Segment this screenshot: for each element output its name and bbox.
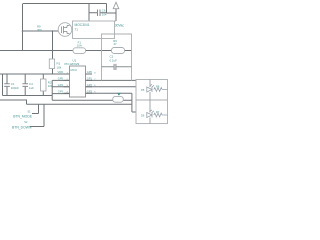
LED cell 2 vertical bbox=[149, 100, 151, 124]
svg-text:10k: 10k bbox=[48, 84, 53, 88]
wire x89 drop bbox=[88, 4, 90, 22]
wire pin3 stub left bbox=[52, 86, 69, 88]
wire rail A buzzer bbox=[52, 99, 132, 101]
wire button1 bbox=[32, 104, 39, 113]
wire cap C2 branch bbox=[24, 74, 26, 96]
svg-text:0.1uF: 0.1uF bbox=[110, 59, 118, 63]
svg-text:GP5: GP5 bbox=[58, 77, 64, 81]
opto triac Q1 circle bbox=[58, 23, 72, 37]
wire main AC line bbox=[0, 50, 132, 52]
svg-text:MCU: MCU bbox=[71, 68, 77, 72]
buzzer flag bbox=[117, 93, 121, 96]
capacitor C1 bbox=[4, 84, 10, 87]
svg-text:T1: T1 bbox=[75, 28, 79, 32]
wire bottom left step bbox=[0, 100, 27, 104]
svg-text:10A: 10A bbox=[77, 43, 82, 47]
capacitor C6 plates bbox=[98, 10, 101, 17]
svg-text:D5: D5 bbox=[141, 88, 145, 92]
svg-text:10k: 10k bbox=[57, 65, 62, 69]
wire mcu right row3 bbox=[86, 86, 137, 88]
resistor R1 bbox=[49, 59, 54, 69]
svg-text:GP3: GP3 bbox=[87, 90, 93, 94]
LED D5 symbol bbox=[147, 84, 154, 92]
svg-text:100nF: 100nF bbox=[11, 86, 19, 90]
wire R2 branch bbox=[42, 74, 44, 96]
svg-text:104: 104 bbox=[102, 12, 107, 16]
wire rail B2 bbox=[27, 103, 132, 105]
wire cap C1 branch bbox=[6, 74, 8, 96]
wire rail T pin1 bbox=[0, 73, 70, 75]
snubber box bbox=[102, 34, 132, 80]
svg-text:GP1: GP1 bbox=[87, 77, 93, 81]
mcu right pins bbox=[86, 74, 93, 93]
svg-text:GP0: GP0 bbox=[87, 70, 93, 74]
LED cell 1 vertical bbox=[149, 80, 151, 101]
wire x106 drop bbox=[106, 4, 108, 14]
svg-text:360: 360 bbox=[37, 28, 42, 32]
junction dots bbox=[22, 30, 54, 51]
triac label box T1 bbox=[73, 21, 115, 39]
power flag AC-N bbox=[113, 2, 119, 9]
resistor R2 bbox=[41, 79, 47, 91]
mcu left pins bbox=[64, 74, 70, 93]
buzzer B1 bbox=[113, 96, 124, 102]
svg-text:D6: D6 bbox=[141, 114, 145, 118]
wire AC-L top bbox=[23, 3, 107, 5]
wire right collector bbox=[132, 93, 136, 112]
svg-text:1uF: 1uF bbox=[29, 86, 34, 90]
wire to flag bbox=[107, 12, 117, 14]
svg-text:BTN_MODE: BTN_MODE bbox=[13, 115, 33, 119]
power flag stem bbox=[115, 9, 117, 21]
svg-text:47: 47 bbox=[113, 42, 117, 46]
capacitor C4 bbox=[22, 84, 28, 87]
wire mcu right row2 bbox=[86, 79, 137, 81]
svg-text:BTN_DOWN: BTN_DOWN bbox=[12, 125, 32, 129]
wire pin2 stub left bbox=[52, 79, 69, 81]
wire rail B pin4 bbox=[3, 95, 53, 97]
wire cap C6 leads bbox=[89, 12, 107, 14]
wire R1 column bbox=[52, 31, 54, 74]
LED box bbox=[136, 80, 168, 124]
svg-text:GP3: GP3 bbox=[58, 90, 64, 94]
wire mid vertical bbox=[51, 80, 53, 100]
wire left edge bbox=[2, 74, 4, 96]
wire left vertical bbox=[22, 4, 24, 52]
svg-text:MOC3041: MOC3041 bbox=[75, 23, 90, 27]
svg-text:R9: R9 bbox=[37, 25, 41, 29]
LED D6 symbol bbox=[147, 110, 154, 118]
svg-text:VDD: VDD bbox=[58, 70, 64, 74]
pin numbers left bbox=[67, 72, 97, 93]
svg-text:GP4: GP4 bbox=[58, 83, 64, 87]
wire mcu right row4 bbox=[86, 92, 132, 94]
wire gate stub bbox=[23, 30, 59, 32]
wire button2 bbox=[30, 104, 44, 126]
svg-text:GP2: GP2 bbox=[87, 83, 93, 87]
